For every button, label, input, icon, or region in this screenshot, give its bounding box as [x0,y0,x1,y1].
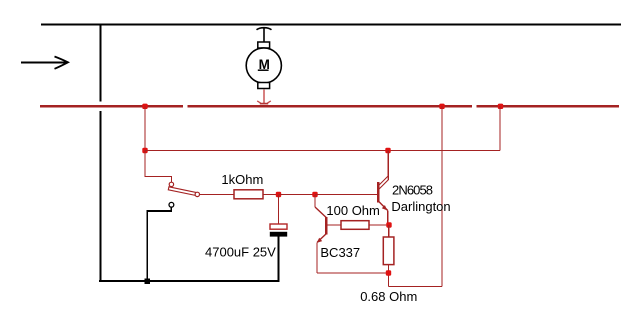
wire: rail down to switch branch [144,106,146,151]
black return wire: left vertical upper segment [99,24,101,102]
motor M: top terminal [258,42,270,48]
resistor 1kOhm [234,190,263,199]
wire: node to darlington base [315,194,378,196]
node: bottom junction [145,279,151,285]
switch S1 lever [168,187,196,196]
wire: bottom loop up to 0.68 ohm [388,273,390,287]
motor M: top lead arrow (up) [257,28,272,43]
transistor Q2: emitter diagonal with arrow [317,234,327,243]
input current arrow [21,57,68,69]
wire: BC337 base to 100 Ohm [326,224,341,226]
svg-text:4700uF 25V: 4700uF 25V [205,245,276,260]
label 2N6058 [392,182,433,197]
label 1kOhm [221,172,263,187]
motor M: letter M [258,57,270,72]
node at (315,194) [312,192,317,197]
motor M: body circle [246,48,281,83]
label BC337 [320,245,360,260]
black bottom wire [99,280,279,282]
top supply rail (black bus) [41,24,621,26]
wire: node down to 0.68 Ohm [388,225,390,237]
transistor Q1 2N6058: collector lead from node [387,151,389,181]
node at (388,150) [385,148,390,153]
wire: 100 Ohm to emitter node [369,224,389,226]
transistor Q1: emitter lead down [387,211,389,223]
black wire from off-contact down to bottom wire [147,207,171,281]
switch S1 pole contact [169,182,173,186]
wire: horizontal feed at y=150 [145,150,500,152]
label 100 Ohm [326,203,379,218]
capacitor C1 positive plate [270,224,287,229]
capacitor C1 lead from node [278,195,280,224]
transistor Q1: emitter diagonal with arrow [379,202,388,211]
node on rail (x=500) [498,104,503,109]
resistor 0.68 Ohm (vertical) [383,237,394,265]
black return wire: left vertical lower segment [99,111,101,282]
node on rail (x=145) [142,104,147,109]
svg-text:2N6058: 2N6058 [392,182,433,197]
node at (278,194) [276,192,281,197]
node at (145,150) [142,148,147,153]
svg-text:0.68 Ohm: 0.68 Ohm [360,289,417,304]
svg-text:BC337: BC337 [320,245,360,260]
node at (388,273) [386,270,391,275]
wire: BC337 emitter to 0.68 node [317,272,389,274]
red positive rail segment 3 [477,105,620,107]
motor M: bottom lead arrow (down, red) [257,90,271,104]
node at (389,225) [386,222,391,227]
red positive rail segment 1 [40,105,183,107]
label Darlington [391,199,450,214]
transistor Q2: collector diagonal [315,207,326,218]
motor M: bottom terminal [258,83,270,89]
wire: cap node to BC337 node [279,194,316,196]
red positive rail segment 2 [188,105,473,107]
node on rail (x=442) [439,104,444,109]
wire: switch to 1kOhm [200,194,234,196]
capacitor C1 negative plate (black) [270,232,287,237]
transistor Q2: emitter lead down [316,242,318,273]
switch S1 throw contact (off, black) [169,202,174,207]
transistor Q1: darlington collector double-slash mark [378,176,388,190]
transistor Q2: base bar [325,217,327,235]
wire: rail down at x=442 to bottom loop [441,106,443,287]
capacitor C1 black lead down to bottom wire [278,237,280,283]
label 4700uF 25V [205,245,276,260]
transistor Q2 BC337: collector lead from node [314,195,316,207]
transistor Q1: base bar [377,182,379,203]
label 0.68 Ohm [360,289,417,304]
wire: vertical up to rail at x=500 [499,106,501,151]
svg-text:100 Ohm: 100 Ohm [326,203,379,218]
resistor 100 Ohm [341,221,369,230]
switch S1 throw contact (on) [195,192,199,196]
wire: bottom loop horizontal [389,286,443,288]
svg-text:Darlington: Darlington [391,199,450,214]
svg-text:1kOhm: 1kOhm [221,172,263,187]
wire: 1kOhm to cap node [263,194,279,196]
wire: 0.68 Ohm bottom lead [388,265,390,272]
wire: switch feed elbow [145,151,172,183]
